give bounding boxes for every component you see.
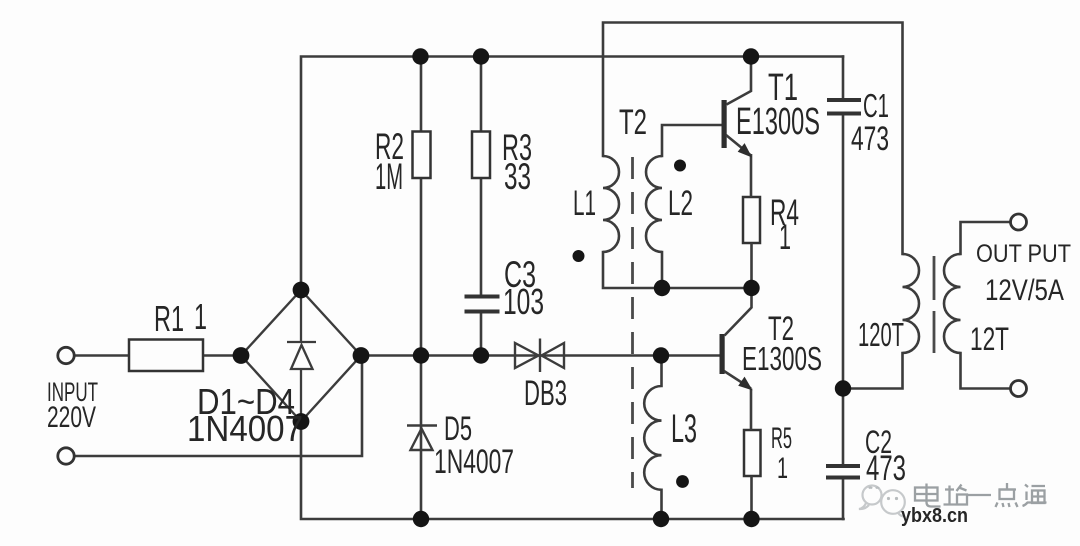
svg-text:1N4007: 1N4007 bbox=[187, 408, 303, 449]
wire 12T terminals leads bbox=[961, 222, 1011, 389]
svg-text:103: 103 bbox=[503, 281, 544, 322]
transformer output core dashes bbox=[933, 256, 936, 353]
capacitor C2 (plates) bbox=[826, 466, 860, 478]
svg-text:R5: R5 bbox=[771, 422, 792, 455]
svg-text:33: 33 bbox=[504, 156, 531, 197]
watermark logo chat bubbles bbox=[859, 486, 905, 517]
node T1 collector bbox=[743, 48, 759, 64]
node bridge top bbox=[293, 282, 310, 299]
svg-text:12V/5A: 12V/5A bbox=[985, 274, 1064, 307]
node R2 top bbox=[412, 48, 428, 64]
node L2 bottom bbox=[654, 280, 670, 296]
node bridge right bbox=[353, 347, 370, 364]
wire second rail y=56.5 with left drop to bridge top bbox=[301, 57, 843, 291]
svg-text:1: 1 bbox=[777, 452, 788, 485]
svg-text:473: 473 bbox=[866, 449, 906, 488]
wire R4 bottom lead bbox=[750, 243, 753, 288]
wire R2/D5 vertical branch bbox=[420, 57, 423, 520]
node D5 top / mid rail bbox=[413, 347, 429, 363]
node R5 bottom rail bbox=[743, 511, 759, 527]
transformer T2 core (dashed) bbox=[631, 157, 634, 488]
transformer output primary winding 120T bbox=[903, 254, 920, 353]
wire R5 bottom lead bbox=[750, 476, 753, 519]
wire mid rail right: bridge right vertex to T2 base bbox=[361, 354, 720, 357]
transistor T2 (NPN E1300S) bbox=[720, 288, 752, 430]
input terminal top bbox=[58, 347, 74, 363]
node D5 bottom rail bbox=[413, 511, 429, 527]
resistor R5 (body) bbox=[744, 430, 761, 476]
svg-text:1: 1 bbox=[194, 296, 207, 337]
phase dot L2 bbox=[674, 160, 686, 172]
node R3 top bbox=[473, 48, 489, 64]
wire R3/C3 vertical branch bbox=[480, 57, 483, 356]
wire L1-L2 bottom rail y=288 bbox=[603, 252, 752, 288]
watermark text 电路一点通 (simplified strokes) bbox=[915, 483, 1047, 507]
svg-text:E1300S: E1300S bbox=[736, 101, 820, 143]
node L3 bottom rail bbox=[653, 511, 669, 527]
svg-text:L2: L2 bbox=[668, 184, 693, 223]
diac DB3 bbox=[515, 339, 564, 373]
transformer output secondary winding 12T bbox=[944, 254, 960, 353]
svg-text:473: 473 bbox=[851, 120, 889, 158]
junction nodes bbox=[233, 48, 852, 527]
output terminal bottom bbox=[1011, 381, 1027, 397]
resistor R2 (body) bbox=[413, 132, 431, 179]
bridge rectifier D1~D4 (diamond) bbox=[241, 290, 361, 422]
node bridge left bbox=[233, 347, 250, 364]
wire mid rail left: input to bridge left vertex bbox=[74, 354, 241, 357]
inductor L1 (winding, bulge right) bbox=[603, 156, 619, 252]
svg-text:L3: L3 bbox=[671, 407, 697, 451]
bridge inner diode symbol bbox=[287, 296, 316, 415]
svg-text:1N4007: 1N4007 bbox=[434, 443, 514, 481]
svg-text:R1: R1 bbox=[154, 298, 184, 339]
node C3 bottom bbox=[473, 347, 489, 363]
svg-text:220V: 220V bbox=[47, 401, 96, 434]
resistor R3 (body) bbox=[472, 132, 490, 179]
svg-text:1M: 1M bbox=[375, 156, 403, 197]
inductor L2 (winding, bulge left) bbox=[646, 156, 662, 252]
wire C1-C2 vertical branch x=843 bbox=[842, 57, 845, 520]
node C1-C2 / 120T return bbox=[835, 380, 851, 396]
svg-text:L1: L1 bbox=[573, 184, 596, 223]
input terminal bottom bbox=[58, 448, 74, 464]
wire bottom rail bbox=[301, 422, 844, 520]
resistor R1 (body) bbox=[129, 340, 203, 372]
node L3 top bbox=[653, 347, 669, 363]
inductor L3 (winding, bulge left) bbox=[644, 356, 661, 520]
capacitor C3 (plates) bbox=[465, 297, 500, 312]
svg-text:1: 1 bbox=[779, 218, 791, 257]
svg-text:ybx8.cn: ybx8.cn bbox=[901, 505, 968, 527]
transistor T1 (NPN E1300S) bbox=[722, 57, 752, 198]
svg-text:E1300S: E1300S bbox=[742, 340, 822, 377]
svg-text:OUT PUT: OUT PUT bbox=[976, 240, 1071, 268]
wire L2 top to T1 base bbox=[662, 125, 722, 156]
svg-text:T2: T2 bbox=[619, 103, 647, 142]
phase dot L3 bbox=[676, 475, 689, 488]
node R4 bottom / T2 collector bbox=[743, 280, 759, 296]
wire top rail box (left side, top, right side down to 120T) bbox=[603, 23, 903, 255]
wire 120T bottom link to node bbox=[843, 353, 903, 389]
svg-text:DB3: DB3 bbox=[524, 374, 567, 413]
wire input bottom lead to bridge right vertex bbox=[74, 356, 362, 457]
capacitor C1 (plates) bbox=[827, 100, 861, 114]
resistor R4 (body) bbox=[743, 197, 760, 243]
phase dot L1 bbox=[573, 250, 585, 262]
svg-text:120T: 120T bbox=[858, 316, 904, 353]
svg-text:C1: C1 bbox=[863, 87, 889, 124]
output terminal top bbox=[1011, 214, 1027, 230]
svg-text:12T: 12T bbox=[970, 321, 1009, 357]
node bridge bottom bbox=[293, 413, 310, 430]
diode D5 (pointing up, cathode bar top) bbox=[407, 426, 437, 451]
